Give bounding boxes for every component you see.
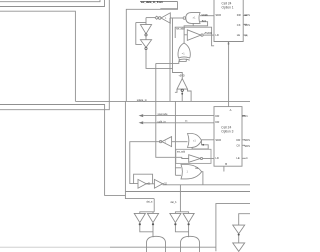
svg-text:SDS7: SDS7: [244, 144, 250, 148]
svg-text:SDS6: SDS6: [244, 138, 250, 142]
svg-text:CK: CK: [237, 23, 241, 27]
svg-text:LE: LE: [236, 156, 239, 160]
svg-text:sw_data_in_from: sw_data_in_from: [141, 0, 164, 4]
svg-text:B02: B02: [202, 20, 207, 23]
svg-text:DR: DR: [215, 114, 219, 118]
svg-text:SDS07: SDS07: [244, 23, 250, 27]
svg-text:DR: DR: [215, 120, 219, 124]
svg-text:LD: LD: [215, 33, 218, 37]
svg-text:cclk_in: cclk_in: [158, 119, 167, 123]
svg-text:+4: +4: [244, 156, 248, 160]
svg-text:out: out: [195, 167, 199, 170]
svg-text:+5VD: +5VD: [179, 74, 185, 77]
svg-text:B: B: [228, 42, 230, 46]
svg-text:Option 1: Option 1: [222, 5, 234, 9]
svg-text:+5VDD: +5VDD: [204, 31, 213, 35]
svg-text:sw_add: sw_add: [177, 150, 186, 153]
svg-text:n01: n01: [146, 183, 151, 186]
svg-text:DR: DR: [237, 13, 241, 17]
svg-text:DR1: DR1: [242, 114, 248, 118]
svg-text:LD: LD: [215, 156, 218, 160]
svg-text:sdata_in: sdata_in: [137, 98, 148, 102]
svg-text:swmode: swmode: [158, 112, 169, 116]
svg-text:DR: DR: [236, 138, 240, 142]
svg-text:n02: n02: [163, 183, 168, 186]
svg-text:sw_add: sw_add: [176, 27, 185, 30]
svg-text:+4: +4: [244, 33, 248, 37]
svg-text:SDR: SDR: [215, 138, 221, 142]
svg-text:dat_b: dat_b: [170, 201, 177, 204]
svg-text:SDS06: SDS06: [244, 13, 250, 17]
svg-text:SDRF: SDRF: [201, 14, 208, 17]
svg-text:LE: LE: [237, 33, 240, 37]
svg-text:B: B: [225, 162, 227, 166]
svg-text:A: A: [230, 108, 232, 112]
svg-text:dat_a: dat_a: [146, 201, 153, 204]
svg-text:CK: CK: [236, 143, 240, 147]
svg-text:SDR: SDR: [215, 13, 221, 17]
svg-text:Option 3: Option 3: [221, 130, 233, 134]
